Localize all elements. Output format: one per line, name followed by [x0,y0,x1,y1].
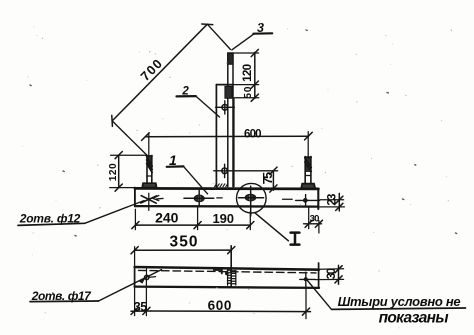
left stud [142,155,156,187]
text 190 [212,211,234,226]
text 23 [324,193,338,205]
svg-text:30: 30 [326,268,338,279]
text 240 [155,210,179,226]
svg-text:50: 50 [243,86,254,98]
dimension 600 top [142,132,313,157]
text 700 [137,56,165,84]
text 75 [261,172,275,185]
right stud [301,157,315,189]
text 50 [243,86,254,98]
svg-text:600: 600 [208,298,232,313]
note 2otv f12 [18,201,144,226]
bolt B2 on channel [214,164,278,177]
note shtyri [307,280,466,326]
text 30 (plate) [326,268,338,279]
svg-text:240: 240 [155,210,179,226]
svg-text:75: 75 [261,172,275,185]
dimension 120 left [110,152,147,192]
specks [30,30,457,294]
svg-text:350: 350 [170,233,198,250]
text 120 (post) [241,63,254,81]
dimension 700 diagonal [112,24,231,156]
centerline of beam [153,196,292,201]
right hole cross [296,195,320,207]
hidden dashed line in plate [139,270,317,273]
dimension 23 [320,193,345,211]
dimension 35 [131,279,151,316]
svg-text:23: 23 [324,193,338,205]
svg-text:30: 30 [310,214,320,225]
dimension 30 right of plate [315,265,343,284]
dimension 75 [270,167,277,192]
right hole lower view [300,272,315,285]
svg-text:190: 190 [212,211,234,226]
section label I [291,233,300,245]
post bar item3 [225,53,233,187]
detail circle I [237,183,289,240]
left hole X mark under stud [141,193,163,210]
label 2 [177,86,220,117]
bolt B1 on channel [216,101,235,114]
svg-text:700: 700 [137,56,165,84]
svg-text:показаны: показаны [379,309,449,326]
text 350 [170,233,198,250]
dimension 600 bottom [151,286,311,319]
left hole lower view [139,268,156,283]
post channel item2 [215,85,234,187]
dimension 240 190 [132,207,254,229]
text 600 top [244,128,261,140]
svg-text:120: 120 [241,63,254,81]
svg-text:600: 600 [244,128,261,140]
label 1 [167,152,208,194]
hole H1 in beam [184,190,214,206]
channel section in lower view [214,246,236,287]
beam (upper view plate) [135,188,319,209]
dimension 350 [131,247,235,267]
label 3 [232,21,272,50]
dimension 120/50 right of post [234,49,259,101]
note 2otv f17 [30,270,162,303]
text 600 bottom [208,298,232,313]
text 35 [134,300,147,314]
svg-text:Штыри условно не: Штыри условно не [338,294,461,309]
svg-text:120: 120 [108,163,119,181]
lower plate [135,263,319,288]
dimension 30 below right stud [304,208,323,233]
text 30 (stud) [310,214,320,225]
hole H2 in beam (detailed) [239,186,264,216]
svg-text:35: 35 [134,300,147,314]
text 120 (left) [108,163,119,181]
